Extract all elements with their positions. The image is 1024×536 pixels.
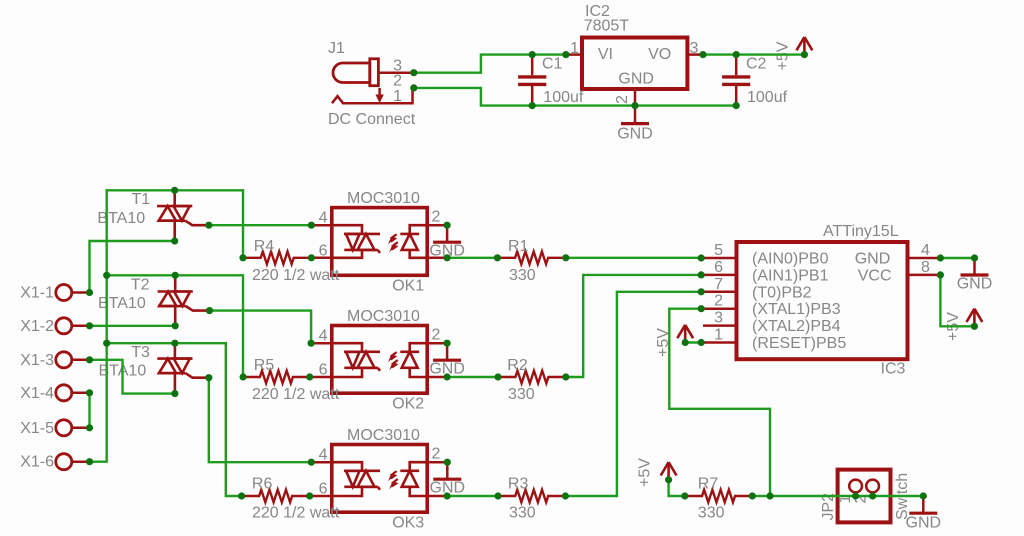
svg-text:4: 4 [921,242,930,259]
value 100uf C1 [543,89,584,106]
wire IC2 VO to +5V via C2 [703,53,804,55]
value 7805T [584,18,630,35]
value Switch JP2 [894,473,911,520]
resistor R5 220 1/2 watt [243,371,310,384]
svg-text:R4: R4 [254,238,275,255]
label DC Connect [328,111,416,128]
value R2 [508,386,535,403]
svg-text:X1-4: X1-4 [20,385,54,402]
+5V supply arrow top right [797,37,813,55]
label OK1 [392,278,424,295]
label X1-4 [20,385,54,402]
OK3 pin number 4 [319,447,328,464]
svg-text:OK1: OK1 [392,278,424,295]
connector pad X1-5 [56,420,90,436]
svg-text:7: 7 [714,276,723,293]
node T2 MT1 [172,322,179,329]
svg-text:4: 4 [319,210,328,227]
svg-text:220 1/2 watt: 220 1/2 watt [252,267,340,284]
J1 pin 2 switch arrow [375,88,383,103]
T2 stem leads [174,275,177,326]
resistor R7 330 [685,490,753,503]
node IC3 pin1 [698,339,705,346]
svg-text:3: 3 [714,310,723,327]
svg-text:1: 1 [714,327,723,344]
wire T2 MT2 top to R5 [107,275,243,377]
node J1 pin2 [410,84,417,91]
svg-text:330: 330 [508,386,535,403]
svg-text:OK3: OK3 [392,515,424,532]
OK2 pin number 2 [432,327,441,344]
wire T1 gate to OK1 pin4 [209,224,312,226]
J1 pin number 3 [393,58,402,75]
wire X1-3 to T3 MT1 [90,360,175,394]
OK3 internal triac [332,462,380,496]
label R1 [508,238,529,255]
svg-text:330: 330 [509,504,536,521]
connector pad X1-2 [56,318,90,334]
svg-text:J1: J1 [328,40,345,57]
svg-text:GND: GND [957,275,993,292]
JP2 pin number 1 [837,495,854,504]
svg-text:6: 6 [319,362,328,379]
capacitor C1 [518,55,546,106]
IC3 pin name (T0)PB2 [752,284,812,301]
net label +5V at IC3 VCC [945,312,962,341]
svg-text:T3: T3 [131,344,150,361]
connector J1 barrel-jack symbol [333,59,378,86]
+5V supply arrow at R7 [661,462,677,480]
svg-text:(AIN0)PB0: (AIN0)PB0 [752,251,829,268]
node T1 MT2 [171,187,178,194]
node R3 right [562,492,569,499]
JP2 pin circles 1,2 [849,480,879,496]
svg-text:4: 4 [319,328,328,345]
node IC3 pin4 [937,254,944,261]
label C2 [746,56,767,73]
svg-text:100uf: 100uf [543,89,584,106]
wire T2 gate to OK2 pin4 [210,311,312,344]
svg-text:6: 6 [319,481,328,498]
node X1-6 [86,458,93,465]
node T2 MT2 [172,272,179,279]
svg-text:(XTAL1)PB3: (XTAL1)PB3 [752,301,841,318]
wire X1-4 to X1-5 [88,393,90,428]
svg-text:MOC3010: MOC3010 [347,427,420,444]
triac T1 BTA10 [157,206,209,225]
svg-text:330: 330 [698,504,725,521]
svg-text:2: 2 [432,327,441,344]
node X1-3 [86,356,93,363]
label JP2 [820,493,837,521]
node C2 bottom [733,102,740,109]
OK2 light arrows [388,352,398,370]
IC3 pin number 2 [714,293,723,310]
svg-text:220 1/2 watt: 220 1/2 watt [252,386,340,403]
svg-text:2: 2 [432,209,441,226]
value R1 [509,267,536,284]
value BTA10 T3 [99,362,147,379]
OK2 pin number 6 [319,362,328,379]
IC2 pin number 3 [690,40,699,57]
node T1 MT1 [171,237,178,244]
svg-text:X1-3: X1-3 [20,352,54,369]
svg-text:VCC: VCC [858,267,892,284]
junction common vertical T3 top [103,340,110,347]
+5V supply arrow at IC3 VCC [967,309,983,327]
node R6 right OK3 pin6 [306,492,313,499]
svg-text:1: 1 [570,40,579,57]
resistor R6 220 1/2 watt [242,490,310,503]
optocoupler OK3 MOC3010 box [332,445,427,513]
node JP2 pin1 [852,492,859,499]
svg-text:BTA10: BTA10 [98,295,146,312]
IC2 pin 3 VO stub [687,53,703,56]
IC3 pin number 1 [714,327,723,344]
triac T3 BTA10 [157,359,209,378]
wire OK3 pin1 to R3 [447,495,498,497]
svg-text:2: 2 [714,293,723,310]
svg-text:X1-5: X1-5 [20,420,54,437]
OK3 pin number 6 [319,481,328,498]
node R2 left [494,373,501,380]
node X1-4 [86,389,93,396]
svg-text:3: 3 [690,40,699,57]
svg-text:(T0)PB2: (T0)PB2 [752,284,812,301]
wire IC3 pin8 to +5V [940,275,974,326]
label OK2 [392,396,424,413]
wire X1-1 to T1 MT1 [90,241,175,293]
IC3 pin number 4 [921,242,930,259]
svg-text:100uf: 100uf [747,89,788,106]
svg-text:R3: R3 [508,475,529,492]
svg-text:R6: R6 [252,475,273,492]
svg-text:BTA10: BTA10 [97,210,145,227]
node R1 right [562,254,569,261]
svg-text:2: 2 [432,446,441,463]
capacitor C2 [722,55,750,106]
IC3 pin name (XTAL1)PB3 [752,301,841,318]
OK1 pin number 4 [319,210,328,227]
node OK1 pin1 [444,254,451,261]
value BTA10 T2 [98,295,146,312]
IC2 pin name VI [598,46,613,63]
IC2 pin 1 VI stub [566,53,582,56]
node OK1 pin4 [308,222,315,229]
OK1 internal LED [400,225,427,258]
value R7 [698,504,725,521]
OK1 light arrows [388,234,398,252]
node R5 right OK2 pin6 [306,373,313,380]
ground symbol at OK1 pin 2 [429,225,465,259]
svg-text:X1-6: X1-6 [20,454,54,471]
node R1 left [494,254,501,261]
OK3 pin number 2 [432,446,441,463]
value R4 [252,267,340,284]
node T2 gate [206,307,213,314]
svg-text:DC Connect: DC Connect [328,111,416,128]
ground symbol at JP2 [906,496,942,532]
net label +5V at IC3 pin1 [655,328,672,357]
wire common vertical to X1-6 [90,190,107,461]
IC2 pin name VO [648,46,671,63]
label IC3 [881,361,906,378]
node R4 left [239,254,246,261]
value ATTiny15L [823,223,899,240]
wire T1 MT2 top to R4 [107,190,243,257]
svg-text:(RESET)PB5: (RESET)PB5 [752,335,846,352]
OK1 pin stubs 4,6,2,1 [310,225,447,258]
node IC2 pin2 ground rail [631,102,638,109]
net label +5V top right [775,41,792,70]
svg-text:OK2: OK2 [392,396,424,413]
node C1 bottom [529,102,536,109]
label R2 [507,357,528,374]
node IC2 pin1 [562,51,569,58]
wire R1 to IC3 pin5 [566,257,701,259]
OK2 pin stubs 4,6,2,1 [310,343,447,377]
J1 sleeve pin 1 lead with chevron [332,88,413,103]
wire J1 pin2 ground rail to C2 [414,88,736,106]
node R4 right OK1 pin6 [308,254,315,261]
label R6 [252,475,273,492]
node +5V at IC3 VCC [971,323,978,330]
label R7 [698,475,719,492]
value R5 [252,386,340,403]
node JP2 GND [920,492,927,499]
node C2 top [733,51,740,58]
ground symbol at OK2 pin 2 [429,343,465,377]
svg-text:X1-2: X1-2 [20,318,54,335]
svg-text:2: 2 [614,95,631,104]
node OK2 pin1 [444,373,451,380]
wire T3 MT2 top to R6 [107,343,242,496]
node T3 MT2 [171,340,178,347]
node X1-5 [86,424,93,431]
J1 pin number 1 [393,88,402,105]
node R3 left [494,492,501,499]
label T3 [131,344,150,361]
node IC3 GND symbol [971,254,978,261]
value R3 [509,504,536,521]
IC3 pin name VCC [858,267,892,284]
node OK3 pin4 [308,459,315,466]
svg-text:330: 330 [509,267,536,284]
svg-text:6: 6 [714,259,723,276]
svg-text:6: 6 [319,242,328,259]
IC3 pin number 8 [921,259,930,276]
label R4 [254,238,275,255]
svg-text:8: 8 [921,259,930,276]
T1 stem leads [173,190,176,241]
svg-text:7805T: 7805T [584,18,630,35]
JP2 pin number 2 [853,495,870,504]
svg-text:GND: GND [617,126,653,143]
svg-text:MOC3010: MOC3010 [347,190,420,207]
svg-text:T1: T1 [132,191,151,208]
node OK1 pin2 gnd [444,222,451,229]
OK2 internal triac [332,343,380,377]
node J1 pin3 [410,69,417,76]
svg-text:GND: GND [618,70,654,87]
node X1-2 [86,322,93,329]
svg-text:MOC3010: MOC3010 [347,308,420,325]
resistor R2 330 [498,371,566,384]
svg-text:220 1/2 watt: 220 1/2 watt [252,504,340,521]
node X1-1 [86,289,93,296]
resistor R3 330 [498,490,565,503]
IC2 pin name GND [618,70,654,87]
IC2 pin number 1 [570,40,579,57]
node T3 MT1 [171,390,178,397]
svg-text:4: 4 [319,447,328,464]
svg-text:+5V: +5V [775,41,792,70]
svg-text:C1: C1 [542,56,563,73]
wire R3 to IC3 pin7 [565,292,701,496]
net label +5V at R7 [637,458,654,487]
OK1 pin number 2 [432,209,441,226]
OK1 internal triac [332,225,380,258]
value BTA10 T1 [97,210,145,227]
svg-text:5: 5 [714,242,723,259]
label X1-3 [20,352,54,369]
node +5V at IC3 pin1 [682,339,689,346]
svg-text:T2: T2 [131,277,150,294]
wire J1 pin3 to IC2 VI via C1 [414,55,566,73]
node IC3 pin5 [698,254,705,261]
label R5 [254,357,275,374]
node R6 left [238,492,245,499]
node IC2 pin3 [699,51,706,58]
node IC3 pin7 [698,288,705,295]
J1 pin 3 lead [378,71,412,74]
node OK3 pin2 gnd [444,459,451,466]
value R6 [252,504,340,521]
IC3 pin number 3 [714,310,723,327]
wire IC3 pin4 to GND [940,257,974,259]
svg-text:(XTAL2)PB4: (XTAL2)PB4 [752,318,841,335]
T3 stem leads [174,343,177,393]
label T1 [132,191,151,208]
svg-text:R2: R2 [507,357,528,374]
node R2 right [562,373,569,380]
node R7 right [749,492,756,499]
node R7 left [681,492,688,499]
value MOC3010 OK3 [347,427,420,444]
svg-text:IC3: IC3 [881,361,906,378]
optocoupler OK2 MOC3010 box [332,326,427,394]
OK2 pin number 4 [319,328,328,345]
label IC2 [585,3,610,20]
label R3 [508,475,529,492]
wire R7 through JP2 to GND [752,495,923,497]
svg-text:X1-1: X1-1 [20,285,54,302]
svg-text:R1: R1 [508,238,529,255]
OK3 pin stubs 4,6,2,1 [310,462,447,496]
wire X1-2 to T2 MT1 [90,325,176,327]
+5V supply arrow at IC3 RESET pin 1 [677,325,693,343]
node +5V top right [801,51,808,58]
label OK3 [392,515,424,532]
svg-text:R5: R5 [254,357,275,374]
optocoupler OK1 MOC3010 box [332,208,427,276]
junction switch row [766,492,773,499]
jumper JP2 box [838,470,891,523]
resistor R4 220 1/2 watt [243,251,311,264]
ground symbol at IC3 GND pin 4 [957,258,993,292]
node T3 gate [205,374,212,381]
svg-text:ATTiny15L: ATTiny15L [823,223,899,240]
OK1 pin number 6 [319,242,328,259]
node +5V at R7 [665,476,672,483]
label J1 [328,40,345,57]
IC3 right pin stubs 4,8 [908,258,941,275]
triac T2 BTA10 [158,292,210,311]
IC3 pin number 7 [714,276,723,293]
svg-text:GND: GND [855,251,891,268]
OK3 internal LED [400,462,427,496]
connector pad X1-4 [56,385,90,401]
label X1-2 [20,318,54,335]
microcontroller IC3 ATTiny15L box [737,242,908,359]
node IC3 pin8 [937,271,944,278]
ground symbol below IC2 [617,106,653,143]
node R5 left [240,373,247,380]
node IC3 pin2 [698,305,705,312]
IC3 pin number 6 [714,259,723,276]
label X1-5 [20,420,54,437]
junction common vertical T2 top [103,272,110,279]
J1 pin number 2 [393,73,402,90]
wire IC3 pin2 to switch row [669,309,770,496]
svg-text:VO: VO [648,46,671,63]
IC3 left pin stubs 5,6,7,2,3,1 [701,258,736,343]
OK2 internal LED [400,343,427,377]
svg-text:C2: C2 [746,56,767,73]
node JP2 pin2 [869,492,876,499]
connector pad X1-6 [56,454,90,470]
wire R2 to IC3 pin6 [566,275,701,377]
node OK3 pin1 [444,492,451,499]
OK3 light arrows [388,471,398,489]
IC2 pin number 2 rotated [614,95,631,104]
wire OK1 pin1 to R1 [447,257,497,259]
IC3 pin name (AIN1)PB1 [752,267,829,284]
wire T3 gate to OK3 pin4 [209,378,311,463]
label X1-6 [20,454,54,471]
label X1-1 [20,285,54,302]
value MOC3010 OK1 [347,190,420,207]
label T2 [131,277,150,294]
wire OK2 pin1 to R2 [447,376,498,378]
svg-text:VI: VI [598,46,613,63]
ground symbol at OK3 pin 2 [430,462,466,496]
IC3 pin name (RESET)PB5 [752,335,846,352]
IC3 pin name GND [855,251,891,268]
IC2 pin 2 GND stub [634,89,637,106]
wire +5V to IC3 pin1 [685,341,701,343]
IC3 pin name (XTAL2)PB4 [752,318,841,335]
svg-text:(AIN1)PB1: (AIN1)PB1 [752,267,829,284]
node T1 gate [205,222,212,229]
connector pad X1-1 [56,285,90,301]
IC3 pin number 5 [714,242,723,259]
node C1 top [529,51,536,58]
node OK2 pin2 gnd [444,340,451,347]
value 100uf C2 [747,89,788,106]
svg-text:1: 1 [393,88,402,105]
IC3 pin name (AIN0)PB0 [752,251,829,268]
